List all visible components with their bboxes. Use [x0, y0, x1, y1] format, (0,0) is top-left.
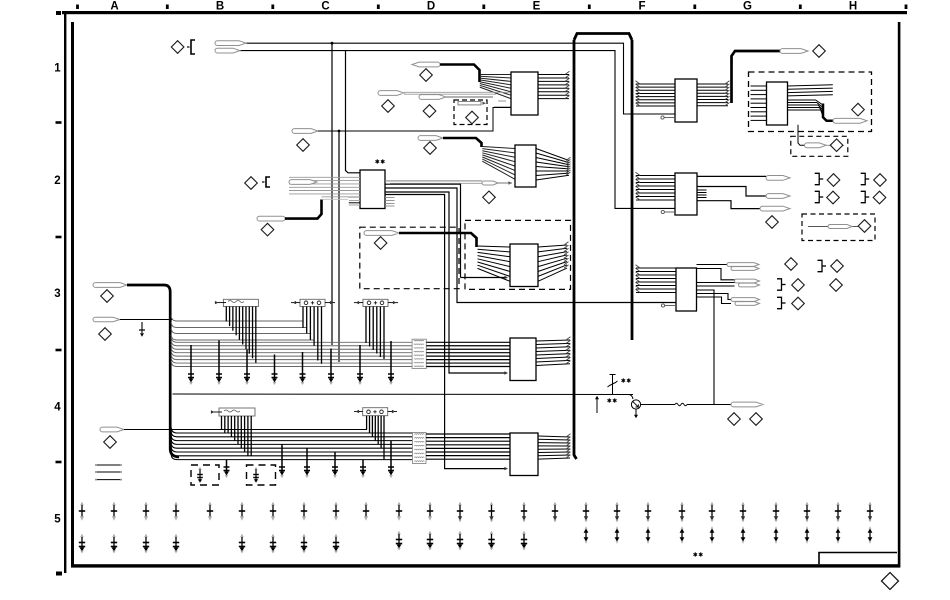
svg-text:3: 3	[54, 288, 60, 300]
svg-text:2: 2	[54, 175, 60, 187]
svg-text:D: D	[427, 1, 435, 13]
svg-text:E: E	[533, 1, 541, 13]
svg-text:G: G	[743, 1, 752, 13]
svg-text:H: H	[849, 1, 857, 13]
svg-text:4: 4	[54, 402, 61, 414]
svg-text:F: F	[638, 1, 645, 13]
svg-text:B: B	[216, 1, 224, 13]
svg-text:1: 1	[54, 63, 61, 75]
svg-text:5: 5	[54, 514, 61, 526]
svg-text:A: A	[110, 1, 118, 13]
svg-text:C: C	[321, 1, 329, 13]
